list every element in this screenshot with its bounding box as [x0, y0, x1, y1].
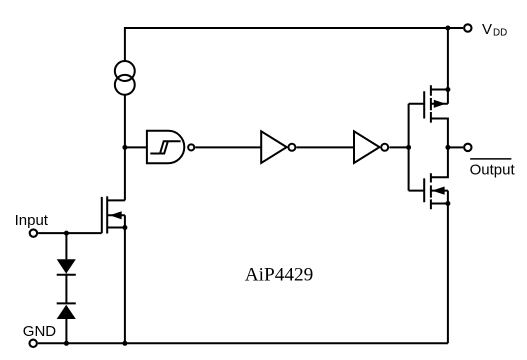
transistor Q3 NMOS channel [106, 196, 108, 233]
wire inverter 2 to gate node [389, 146, 408, 148]
svg-text:V: V [482, 21, 492, 38]
node schmitt input [122, 145, 127, 150]
wire inverter 1 to inverter 2 [297, 146, 355, 148]
wire to output terminal [448, 146, 463, 148]
terminal GND [30, 340, 37, 347]
transistor Q3 NMOS drain stub [107, 199, 125, 201]
wire Q3 source to ground rail [124, 215, 126, 343]
inverter U2 [261, 131, 287, 163]
node diode ground [64, 341, 69, 346]
transistor Q1 PMOS body arrow [434, 100, 446, 108]
node input [64, 231, 69, 236]
transistor Q2 NMOS channel [430, 173, 432, 209]
transistor Q2 NMOS source stub [431, 203, 448, 205]
node Q2 source-body [445, 201, 450, 206]
svg-text:DD: DD [493, 28, 507, 39]
transistor Q2 NMOS body line [431, 190, 448, 192]
transistor Q1 PMOS drain to output [431, 119, 448, 148]
transistor Q1 PMOS gate [409, 91, 425, 118]
node VDD [445, 26, 450, 31]
wire schmitt to inverter 1 [195, 146, 261, 148]
transistor Q2 NMOS gate [409, 178, 425, 202]
transistor Q2 NMOS body arrow [432, 187, 445, 195]
node output [445, 145, 450, 150]
transistor Q1 PMOS channel [430, 85, 432, 122]
wire common gate vertical [408, 104, 410, 191]
wire top rail VDD [125, 28, 448, 61]
svg-text:AiP4429: AiP4429 [245, 265, 314, 286]
svg-text:GND: GND [23, 323, 57, 340]
current source I1 [115, 61, 135, 81]
node Q3 source-body [122, 225, 127, 230]
inverter U3 [354, 131, 380, 163]
svg-text:Output: Output [470, 162, 516, 179]
inverter U3 bubble [381, 144, 388, 151]
transistor Q1 PMOS body line [431, 103, 448, 105]
transistor Q1 PMOS source stub [431, 89, 448, 91]
wire to schmitt input [125, 146, 147, 148]
wire diode D1 to diode D2 [65, 274, 67, 304]
wire ground rail [38, 342, 448, 344]
wire diode D2 to ground rail [65, 319, 67, 343]
svg-text:Input: Input [15, 212, 49, 229]
wire input node to diode D1 [65, 233, 67, 259]
terminal VDD [464, 24, 471, 31]
diode D1 [57, 259, 76, 273]
transistor Q3 NMOS body arrow [110, 211, 122, 219]
label Output overline [470, 158, 511, 160]
schmitt output bubble [188, 144, 194, 150]
transistor Q3 NMOS gate [101, 197, 103, 233]
schmitt trigger U1 body [147, 131, 184, 163]
wire to VDD terminal [448, 27, 463, 29]
wire Q2 source to ground rail [447, 191, 449, 344]
node Q3 ground [122, 341, 127, 346]
diode D2 [57, 302, 76, 304]
wire VDD vertical [447, 28, 449, 104]
wire left vertical [124, 95, 126, 201]
transistor Q3 NMOS source stub [107, 227, 125, 229]
node Q1 source-body [445, 87, 450, 92]
inverter U2 bubble [288, 144, 295, 151]
transistor Q3 NMOS body line [107, 214, 125, 216]
schmitt hysteresis symbol [150, 141, 180, 153]
wire input to gate [38, 232, 102, 234]
terminal Output [464, 144, 471, 151]
terminal Input [30, 229, 37, 236]
node common gate [406, 145, 411, 150]
transistor Q2 NMOS drain to output [431, 147, 448, 177]
